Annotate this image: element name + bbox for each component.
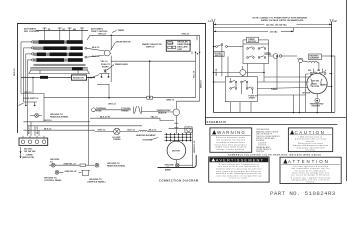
timer cam platform row 6 [31, 67, 88, 70]
grounding box at motor grid [185, 127, 192, 133]
door switch (schematic) contacts [214, 44, 231, 48]
svg-text:WARNING: WARNING [217, 130, 246, 135]
svg-text:AVERTISSEMENT: AVERTISSEMENT [216, 157, 264, 162]
svg-text:GRN/YEL-10: GRN/YEL-10 [194, 140, 196, 153]
fabric selector switch box [166, 40, 190, 51]
svg-text:YEL-10: YEL-10 [193, 70, 195, 78]
timer cam bar row 1 [34, 40, 83, 43]
svg-text:HEATING ELEMENT: HEATING ELEMENT [136, 134, 156, 137]
timer top contact rail [36, 30, 88, 32]
svg-text:BRN-10: BRN-10 [167, 99, 175, 101]
svg-text:THERM: THERM [113, 139, 121, 141]
wire BLK-10 to drum motor switch [87, 48, 105, 51]
svg-text:ORG-12: ORG-12 [182, 33, 191, 35]
svg-text:GRY-10: GRY-10 [216, 68, 218, 76]
svg-text:BLK-10 W: BLK-10 W [100, 117, 110, 119]
main motor (schematic) [307, 73, 327, 93]
svg-text:REAR BULKHEAD: REAR BULKHEAD [50, 115, 69, 118]
svg-text:120 VAC: 120 VAC [270, 30, 279, 33]
lower timer contact box [225, 77, 257, 102]
svg-text:RED-10: RED-10 [29, 126, 31, 134]
svg-text:BLK-12: BLK-12 [128, 130, 136, 132]
svg-text:BLK-10: BLK-10 [44, 129, 52, 131]
svg-text:TIMER KNOB: TIMER KNOB [115, 64, 129, 66]
svg-text:servicing.: servicing. [305, 150, 315, 152]
svg-text:ELEMENT: ELEMENT [310, 58, 321, 60]
svg-text:PENDING: PENDING [256, 151, 265, 153]
selector switch lower wires [176, 35, 199, 109]
hi-limit thermostat [114, 128, 120, 134]
svg-text:KNIT: KNIT [177, 49, 183, 51]
thermostat heater (schematic) [315, 98, 320, 103]
timer left terminals [32, 41, 34, 61]
timer cam bar row 4 [34, 58, 83, 61]
svg-text:BLK-10: BLK-10 [92, 47, 100, 49]
wire hi-limit row ORG-12 [95, 130, 114, 132]
motor internal wires [311, 79, 323, 86]
wire mid rail from door switch [44, 97, 147, 99]
wire BLK-10 W row [90, 118, 174, 120]
svg-text:RATED VOLTAGE LISTED ON NAMEPL: RATED VOLTAGE LISTED ON NAMEPLATE [261, 19, 304, 22]
warning box W1 [210, 128, 252, 152]
ground clamp symbol [81, 170, 90, 175]
schematic bottom wire [214, 112, 335, 114]
wire ORG-12 mid [95, 109, 131, 111]
svg-text:HEATER: HEATER [312, 105, 321, 108]
svg-text:MOTOR: MOTOR [303, 92, 311, 94]
svg-text:ORG-12: ORG-12 [98, 130, 107, 132]
wire ORG-12 timer to selector [87, 35, 200, 40]
door switch label box [214, 51, 225, 56]
resistor R [72, 75, 87, 80]
inline splice [80, 164, 86, 166]
schematic wires upper [214, 40, 274, 56]
wire GRY-10 [32, 78, 34, 94]
svg-text:BASE: BASE [165, 168, 171, 171]
ground lug rear bulkhead upper [35, 114, 39, 118]
svg-text:ATTENTION: ATTENTION [288, 159, 330, 164]
heating element coil (connection) [139, 130, 148, 131]
svg-text:OR 208 VAC: OR 208 VAC [24, 150, 36, 153]
svg-text:FUSE: FUSE [96, 110, 102, 112]
heating element box (schematic) [309, 54, 322, 60]
schematic misc wires [214, 28, 332, 113]
ground lug 3 row 2 [55, 170, 59, 174]
svg-text:1M: 1M [317, 70, 320, 72]
sheet right border [346, 0, 348, 181]
inline connector [147, 96, 153, 99]
svg-text:YEL-10: YEL-10 [151, 117, 159, 119]
svg-text:5,253,378: 5,253,378 [258, 142, 266, 144]
timer knob symbol [104, 69, 107, 73]
top wire [214, 27, 332, 29]
svg-text:ORG-12: ORG-12 [108, 103, 117, 105]
junction dots [213, 46, 333, 114]
wire resistor to ground row [88, 79, 90, 165]
terminal block [19, 138, 48, 145]
leader TIMER [112, 31, 117, 33]
svg-text:GRN/YEL-W: GRN/YEL-W [65, 171, 77, 173]
timer cam follower contacts [43, 28, 85, 41]
svg-text:TIMER: TIMER [271, 89, 278, 91]
svg-text:DRUM MOTOR: DRUM MOTOR [116, 42, 131, 44]
motor start contacts (schematic) [310, 69, 326, 75]
svg-text:DOOR SWITCH: DOOR SWITCH [23, 98, 39, 100]
svg-text:REAR BULKHEAD: REAR BULKHEAD [107, 164, 126, 167]
upper timer contact box [243, 44, 269, 64]
heater coil (schematic) [309, 61, 318, 63]
timer right terminals [85, 47, 87, 49]
svg-text:WHT-10: WHT-10 [44, 120, 52, 122]
svg-text:RESISTOR: RESISTOR [73, 77, 84, 79]
thermostat heater (connection) [173, 109, 180, 116]
svg-text:MOTOR: MOTOR [248, 41, 256, 43]
svg-text:(SEE NOTE): (SEE NOTE) [22, 157, 34, 159]
leader drum motor [111, 42, 116, 51]
cycling thermostat [134, 106, 142, 114]
timer motor circle (schematic) [214, 71, 240, 73]
timer body outline [29, 70, 90, 73]
timer cam bar row 2 [34, 47, 83, 50]
svg-text:une source de danger et de pan: une source de danger et de panne. [291, 174, 330, 177]
terminal block wires in [31, 122, 39, 136]
motor (connection) [167, 141, 186, 160]
svg-text:CAUTION: CAUTION [295, 130, 326, 135]
120 VAC dimension [214, 31, 269, 33]
svg-text:assure sa surete.: assure sa surete. [229, 177, 248, 180]
wire BLK-12 [120, 130, 139, 132]
svg-text:MOTOR: MOTOR [172, 150, 180, 152]
svg-text:FOREIGN: FOREIGN [256, 140, 265, 142]
schematic title separator 1 [205, 117, 346, 119]
svg-text:BRN-10: BRN-10 [201, 80, 203, 88]
wire yel-10 top [111, 61, 195, 97]
svg-text:PART NO. 510824R3: PART NO. 510824R3 [270, 190, 336, 197]
svg-text:DRY CONTROL: DRY CONTROL [24, 31, 40, 33]
svg-text:damage. Contact qualified.: damage. Contact qualified. [216, 148, 245, 151]
thermal fuse [92, 108, 96, 112]
svg-text:HIGH: HIGH [168, 43, 174, 45]
thermostat heater lower contacts [174, 116, 178, 134]
motor terminal grid [164, 133, 191, 142]
schematic title separator 2 [205, 124, 338, 126]
door switch [21, 94, 44, 122]
patents note block [256, 128, 281, 153]
svg-text:NUMERALS FOLLOWING COLOR MARKI: NUMERALS FOLLOWING COLOR MARKINGS INDICA… [228, 154, 322, 157]
svg-text:ONE OR MORE OF: ONE OR MORE OF [256, 134, 272, 136]
housing enclosure around motor [169, 128, 193, 167]
wire to limit [282, 55, 297, 57]
svg-text:HEATER: HEATER [158, 111, 167, 114]
svg-text:240 VAC OR 208 VAC: 240 VAC OR 208 VAC [266, 23, 287, 26]
timer bottom rail [21, 77, 72, 79]
svg-text:RED-10: RED-10 [14, 68, 16, 76]
svg-text:3 WIRE: 3 WIRE [26, 154, 34, 156]
svg-text:BLK-10: BLK-10 [92, 56, 100, 58]
svg-text:CONNECTION DIAGRAM: CONNECTION DIAGRAM [159, 178, 199, 182]
240 VAC dimension line [214, 24, 265, 26]
svg-text:TIMER: TIMER [118, 30, 125, 32]
svg-text:SWITCH: SWITCH [146, 47, 155, 49]
svg-text:THERM: THERM [121, 110, 129, 112]
svg-text:termine.: termine. [306, 180, 315, 183]
svg-text:5M: 5M [308, 70, 311, 72]
svg-text:5,257,176: 5,257,176 [258, 145, 266, 147]
svg-text:ORG-12: ORG-12 [98, 33, 107, 35]
svg-text:START: START [102, 66, 110, 69]
svg-text:START: START [249, 96, 257, 99]
hi-limit thermostat (schematic) [273, 54, 278, 59]
svg-text:(SERVICE PANEL): (SERVICE PANEL) [88, 180, 106, 183]
wire to thermostat heater [142, 111, 174, 114]
resistor right contacts [88, 77, 90, 79]
caution box C1 [288, 128, 332, 152]
arrows below block [20, 151, 22, 158]
timer motor box [247, 37, 259, 42]
svg-text:CONTROL PANEL: CONTROL PANEL [44, 179, 62, 182]
left panel junction dots [32, 35, 150, 99]
wire WHT-10 row [24, 121, 91, 123]
svg-text:YEL-10: YEL-10 [101, 61, 109, 63]
timer cam bar row 5 (grey) [34, 64, 86, 66]
svg-text:SCHEMATIC: SCHEMATIC [207, 120, 227, 124]
left panel frame [18, 24, 206, 168]
avertissement box A1 [209, 157, 269, 182]
svg-text:MOTOR: MOTOR [311, 86, 319, 88]
svg-text:TD: TD [48, 29, 51, 31]
svg-text:AD: AD [73, 28, 77, 31]
timer bottom connector blob [40, 76, 48, 79]
svg-text:1M SW: 1M SW [312, 81, 319, 83]
attention box A2 [280, 157, 341, 183]
wire BLK-10 row [24, 129, 96, 131]
timer cam bar row 3 [34, 53, 83, 56]
ground lug 2 [95, 163, 99, 167]
wire BLK-10 lower [87, 55, 105, 57]
wires timer left to bundle [21, 42, 32, 136]
wire row 125.8 [28, 125, 143, 127]
neutral stub [293, 28, 295, 31]
drum motor switch contact [104, 50, 110, 56]
wire YEL-10 down from drum motor [110, 35, 111, 82]
